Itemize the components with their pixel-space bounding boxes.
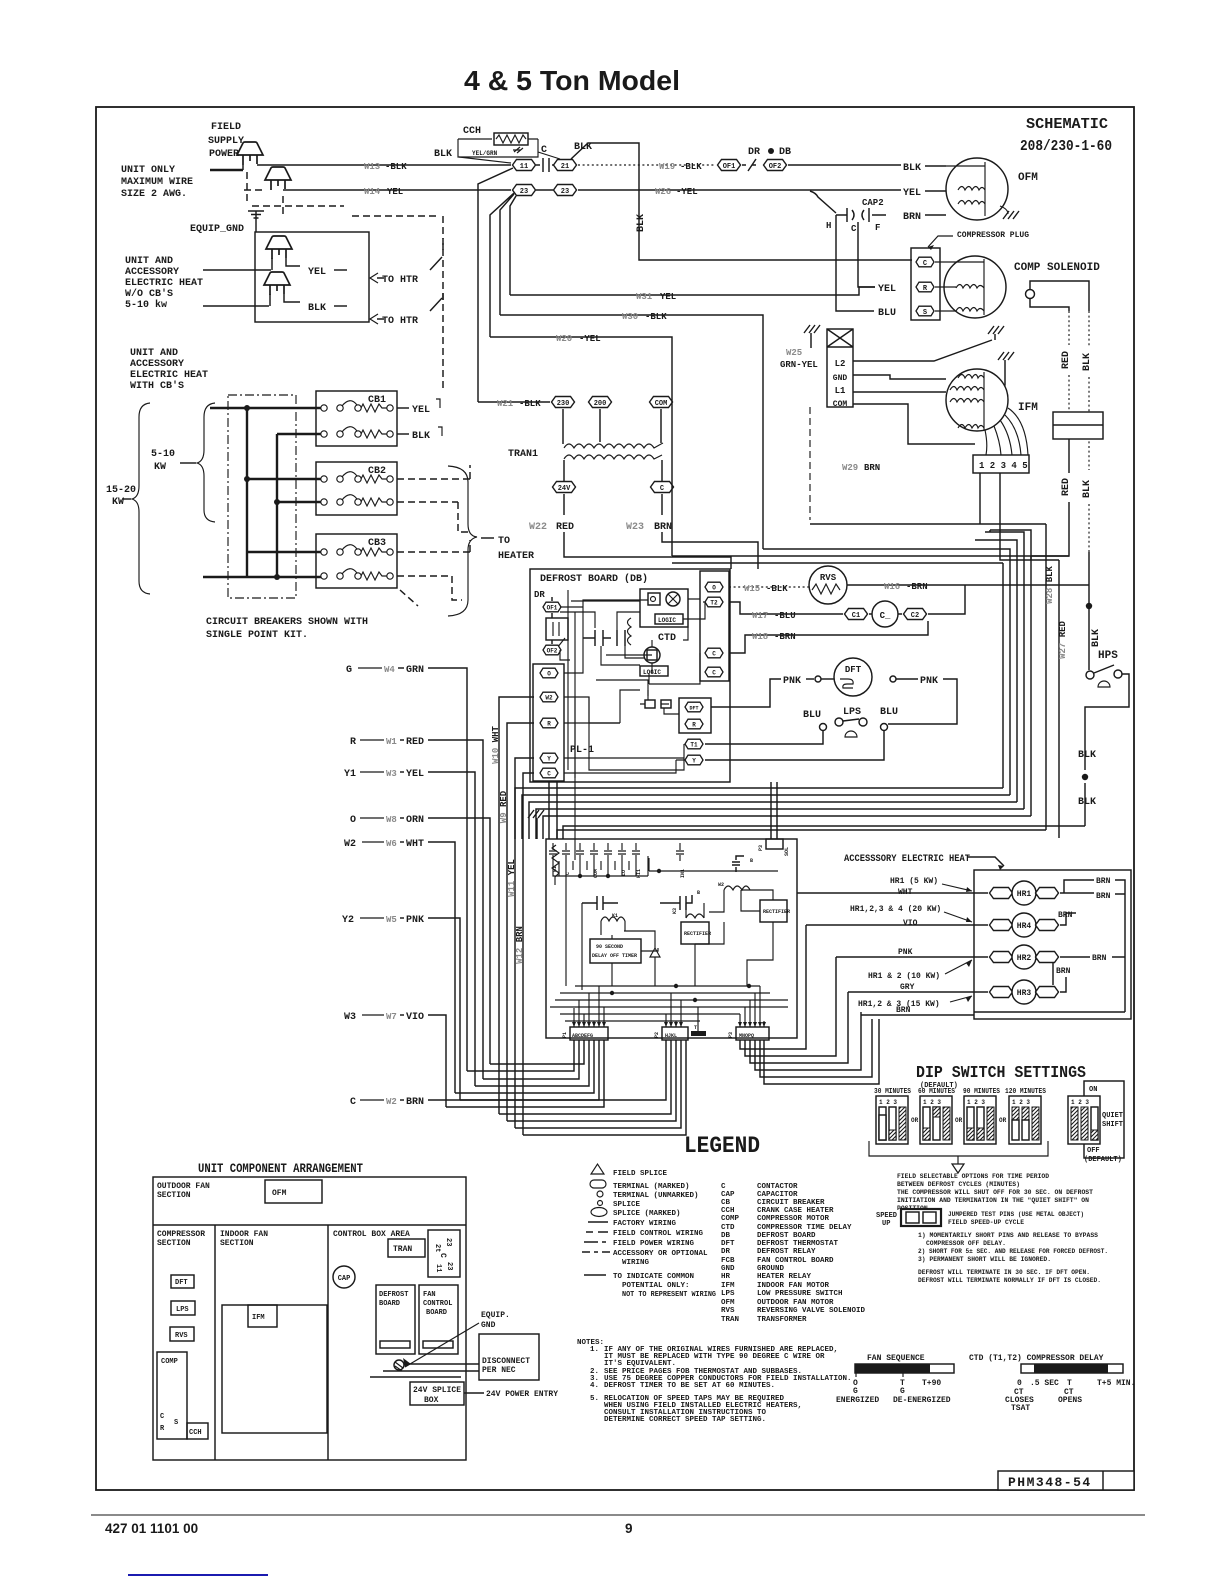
svg-text:OF1: OF1 <box>547 605 558 612</box>
svg-text:S: S <box>923 309 927 317</box>
svg-text:SPEED: SPEED <box>876 1212 897 1220</box>
svg-text:W15: W15 <box>744 584 760 594</box>
svg-text:LOW PRESSURE SWITCH: LOW PRESSURE SWITCH <box>757 1290 843 1298</box>
wire RED vertical <box>1068 311 1070 412</box>
svg-text:DB: DB <box>779 147 791 158</box>
svg-text:WITH CB'S: WITH CB'S <box>130 380 184 392</box>
svg-text:BLK: BLK <box>308 303 326 314</box>
junction dots on buses <box>244 405 250 411</box>
right fan loop 6 <box>764 1019 879 1084</box>
svg-text:RVS: RVS <box>721 1307 735 1315</box>
svg-text:C: C <box>712 670 716 677</box>
transformer TRAN1 coils <box>564 443 663 448</box>
wire BLK vertical <box>1088 311 1090 470</box>
svg-text:GND: GND <box>721 1265 735 1273</box>
svg-text:230: 230 <box>557 400 570 408</box>
svg-text:P2: P2 <box>654 1032 660 1038</box>
svg-text:C: C <box>712 651 716 658</box>
svg-text:TRAN: TRAN <box>721 1316 739 1324</box>
wire tap3 down <box>1000 473 1059 560</box>
circuit breaker CB2 <box>316 462 397 515</box>
terminal 24V <box>553 482 576 493</box>
svg-text:24V SPLICE: 24V SPLICE <box>413 1386 461 1395</box>
svg-text:BLK: BLK <box>903 163 921 174</box>
svg-text:IN1: IN1 <box>680 869 686 878</box>
timer box 90 second delay off <box>590 939 641 963</box>
svg-text:R: R <box>547 721 551 728</box>
loop O to P1 <box>490 1040 584 1064</box>
svg-text:DEFROST WILL TERMINATE IN 30 S: DEFROST WILL TERMINATE IN 30 SEC. IF DFT… <box>918 1269 1090 1276</box>
contactor contacts 11-21 <box>536 158 554 172</box>
svg-text:COM: COM <box>655 400 668 408</box>
loop W2 to P1 <box>455 1040 594 1093</box>
svg-text:YEL: YEL <box>412 405 430 416</box>
CCH plug outline <box>458 139 538 157</box>
svg-text:RED: RED <box>1061 478 1072 496</box>
svg-text:PNK: PNK <box>898 948 913 957</box>
quiet shift outer box <box>1084 1081 1124 1158</box>
speed-up test pins <box>901 1209 941 1226</box>
loop W3 to P1 <box>446 1040 604 1107</box>
svg-text:1 2 3: 1 2 3 <box>879 1099 897 1106</box>
svg-text:OFF: OFF <box>1087 1147 1100 1155</box>
disconnect box <box>479 1334 539 1380</box>
svg-text:23: 23 <box>561 188 569 196</box>
svg-text:23: 23 <box>445 1262 453 1270</box>
svg-text:VIO: VIO <box>406 1012 424 1023</box>
wire W12 BRN <box>523 773 534 1135</box>
svg-text:W31: W31 <box>636 292 653 302</box>
svg-text:1 2 3: 1 2 3 <box>967 1099 985 1106</box>
brace 5-10KW <box>197 403 215 522</box>
svg-text:COMPRESSOR OFF DELAY.: COMPRESSOR OFF DELAY. <box>926 1240 1006 1247</box>
svg-text:ABCDEFG: ABCDEFG <box>572 1033 593 1039</box>
DB pin C2 <box>705 667 723 677</box>
wire W22 RED to defrost board <box>564 494 731 569</box>
accessory dashed wires CB3 <box>397 552 470 576</box>
DFT right terminal <box>890 676 896 682</box>
svg-text:FAN: FAN <box>423 1291 436 1299</box>
svg-text:C: C <box>721 1183 726 1191</box>
logic module 2 <box>644 647 660 663</box>
svg-text:DFT: DFT <box>689 706 698 712</box>
svg-text:W14: W14 <box>364 187 381 197</box>
IFM speed tap wires <box>985 408 1028 455</box>
svg-text:5-10: 5-10 <box>151 449 175 460</box>
svg-text:G: G <box>346 665 352 676</box>
svg-text:BLK: BLK <box>1091 629 1102 647</box>
dip switch box 90 <box>964 1096 996 1144</box>
compressor plug block <box>911 248 940 320</box>
svg-text:SECTION: SECTION <box>157 1239 191 1248</box>
footer blue link line <box>128 1574 268 1576</box>
svg-text:120 MINUTES: 120 MINUTES <box>1005 1088 1046 1096</box>
svg-text:W2: W2 <box>386 1097 397 1107</box>
svg-text:HI1: HI1 <box>636 869 642 878</box>
wire BLK to bus <box>1084 783 1086 826</box>
svg-text:YEL/GRN: YEL/GRN <box>472 150 498 157</box>
loop G to P1 <box>467 1040 574 1071</box>
svg-text:P1: P1 <box>562 1032 568 1038</box>
relay block DFT/R <box>679 698 711 733</box>
svg-text:BOX: BOX <box>424 1396 439 1405</box>
connector P3 <box>736 1027 769 1040</box>
wire into heat box blk <box>203 305 269 307</box>
svg-text:P3: P3 <box>728 1032 734 1038</box>
wire W30-BLK long run <box>500 315 763 549</box>
24V splice box <box>410 1382 464 1405</box>
svg-text:COMPRESSOR MOTOR: COMPRESSOR MOTOR <box>757 1215 830 1223</box>
dip switch box 30 <box>876 1096 908 1144</box>
loop W12 wide <box>523 1040 686 1135</box>
svg-text:4.: 4. <box>590 1382 599 1390</box>
field splice S4 <box>264 272 290 295</box>
svg-text:K3: K3 <box>672 908 678 914</box>
equip ground symbol <box>248 211 264 218</box>
svg-text:W25: W25 <box>786 348 802 358</box>
svg-text:W4: W4 <box>384 665 395 675</box>
component T <box>691 1031 706 1036</box>
svg-text:TO HTR: TO HTR <box>382 316 418 327</box>
svg-text:BOARD: BOARD <box>426 1309 447 1317</box>
brace to heater <box>448 466 477 616</box>
ground at OFM <box>1000 206 1008 214</box>
svg-text:BLK: BLK <box>434 149 452 160</box>
svg-text:PL-1: PL-1 <box>570 745 594 756</box>
svg-text:COMPRESSOR: COMPRESSOR <box>157 1230 205 1239</box>
svg-text:11: 11 <box>520 163 528 171</box>
svg-text:2) SHORT FOR 5± SEC. AND RELEA: 2) SHORT FOR 5± SEC. AND RELEASE FOR FOR… <box>918 1248 1108 1255</box>
svg-text:NOT TO REPRESENT WIRING: NOT TO REPRESENT WIRING <box>622 1291 716 1299</box>
svg-text:BRN: BRN <box>864 463 880 473</box>
ground above heater control <box>528 810 544 818</box>
svg-text:WIRING: WIRING <box>622 1259 650 1267</box>
svg-text:PNK: PNK <box>406 915 424 926</box>
svg-text:BRN: BRN <box>903 212 921 223</box>
svg-text:CONTROL: CONTROL <box>423 1300 452 1308</box>
svg-text:BLU: BLU <box>880 707 898 718</box>
wire field supply lead <box>210 169 243 171</box>
svg-text:W20: W20 <box>556 334 572 344</box>
svg-text:CCH: CCH <box>463 126 481 137</box>
svg-text:OF2: OF2 <box>769 163 782 171</box>
svg-text:DFT: DFT <box>721 1240 735 1248</box>
svg-text:ACCESSORY: ACCESSORY <box>125 267 179 278</box>
DB pin O <box>705 582 723 592</box>
svg-text:C: C <box>438 1253 447 1258</box>
svg-text:CAP2: CAP2 <box>862 198 884 208</box>
svg-text:-BLK: -BLK <box>680 162 702 172</box>
indoor fan motor IFM <box>946 369 1008 431</box>
svg-text:PHM348-54: PHM348-54 <box>1008 1475 1092 1490</box>
svg-text:SPLICE (MARKED): SPLICE (MARKED) <box>613 1210 681 1218</box>
svg-text:F: F <box>875 223 880 233</box>
svg-text:C: C <box>541 145 547 156</box>
PL-1 pin W2 <box>540 692 558 702</box>
svg-text:YEL: YEL <box>406 769 424 780</box>
svg-text:W23: W23 <box>626 522 644 533</box>
svg-text:W18: W18 <box>752 632 768 642</box>
svg-text:SPLICE: SPLICE <box>613 1201 641 1209</box>
fan control board box <box>419 1285 458 1354</box>
dashed accessory risers <box>452 465 470 600</box>
unit & accessory heat w/o CB box <box>255 232 369 322</box>
small ground at CCH <box>513 147 523 153</box>
svg-text:C: C <box>160 1413 164 1421</box>
wire TO HTR 2 <box>377 298 442 319</box>
svg-text:FAN CONTROL BOARD: FAN CONTROL BOARD <box>757 1257 834 1265</box>
wire HPS out <box>1085 674 1129 770</box>
svg-text:BRN: BRN <box>1096 892 1111 901</box>
svg-text:O: O <box>350 815 356 826</box>
svg-text:DETERMINE CORRECT SPEED TAP SE: DETERMINE CORRECT SPEED TAP SETTING. <box>604 1416 766 1424</box>
svg-text:BLK: BLK <box>1078 797 1096 808</box>
wire 23a-23b <box>536 189 553 191</box>
svg-text:FIELD POWER WIRING: FIELD POWER WIRING <box>613 1240 695 1248</box>
arrangement outer box <box>153 1177 466 1460</box>
svg-text:1 2 3: 1 2 3 <box>1071 1099 1089 1106</box>
high pressure switch HPS <box>1086 665 1122 687</box>
svg-text:O: O <box>547 671 551 678</box>
svg-text:GRN: GRN <box>406 665 424 676</box>
svg-text:ACCESSSORY ELECTRIC HEAT: ACCESSSORY ELECTRIC HEAT <box>844 854 970 865</box>
svg-text:OFM: OFM <box>1018 172 1038 184</box>
svg-text:HR4: HR4 <box>1017 922 1032 931</box>
legend terminal marked <box>590 1180 606 1188</box>
relay contact OF1 <box>543 602 561 612</box>
svg-text:W3: W3 <box>344 1012 356 1023</box>
low pressure switch LPS <box>820 718 888 737</box>
splice triangle <box>650 948 660 957</box>
svg-text:RED: RED <box>406 737 424 748</box>
svg-text:R: R <box>692 722 696 729</box>
svg-text:9: 9 <box>625 1521 633 1536</box>
svg-text:1 2 3 4 5: 1 2 3 4 5 <box>979 461 1028 471</box>
wire W27 RED vertical <box>1058 560 1060 838</box>
wire VIO to HR4 <box>806 924 988 926</box>
svg-text:W11 YEL: W11 YEL <box>507 859 517 897</box>
svg-text:INDOOR FAN MOTOR: INDOOR FAN MOTOR <box>757 1282 830 1290</box>
wires DB bottom to FCB <box>549 781 557 839</box>
wire Y to LPS <box>705 730 884 760</box>
defrost relay coil box <box>546 618 568 640</box>
svg-text:ON: ON <box>1089 1086 1097 1094</box>
crank case heater CCH resistor <box>494 133 528 145</box>
svg-text:ELECTRIC HEAT: ELECTRIC HEAT <box>130 370 208 381</box>
FCB cap 1 <box>582 896 618 910</box>
svg-text:OUTDOOR FAN: OUTDOOR FAN <box>157 1182 210 1191</box>
svg-text:SECTION: SECTION <box>157 1191 191 1200</box>
svg-text:CCH: CCH <box>189 1429 202 1437</box>
svg-text:JUMPERED TEST PINS (USE METAL: JUMPERED TEST PINS (USE METAL OBJECT) <box>948 1211 1084 1218</box>
svg-text:IFM: IFM <box>721 1282 735 1290</box>
svg-text:CTD: CTD <box>658 633 676 644</box>
svg-text:GRN-YEL: GRN-YEL <box>780 360 818 370</box>
dip switch box 120 <box>1009 1096 1041 1144</box>
svg-text:O: O <box>712 585 716 592</box>
svg-text:FIELD CONTROL WIRING: FIELD CONTROL WIRING <box>613 1230 704 1238</box>
svg-text:W10 WHT: W10 WHT <box>491 725 501 763</box>
svg-text:PNK: PNK <box>920 676 938 687</box>
defrost relay contact OF1 <box>718 160 741 171</box>
connector P1 <box>570 1027 608 1040</box>
svg-text:DEFROST THERMOSTAT: DEFROST THERMOSTAT <box>757 1240 839 1248</box>
junction dot BLK HPS top <box>1086 603 1092 609</box>
svg-text:OF1: OF1 <box>723 163 736 171</box>
svg-text:IFM: IFM <box>252 1314 265 1322</box>
wire PNK to HR2 <box>836 956 988 958</box>
wire L1 to IFM <box>853 391 946 393</box>
svg-text:DR: DR <box>748 147 760 158</box>
arrangement divider v2 <box>327 1225 329 1460</box>
bus bar B <box>276 434 278 577</box>
wire feed CB3 row2 <box>203 576 324 578</box>
legend field power wiring <box>584 1241 606 1243</box>
ground at IFM <box>998 352 1014 360</box>
svg-text:BLU: BLU <box>803 710 821 721</box>
contactor coil terminal C1 <box>845 609 868 620</box>
wire feed CB2 row1 <box>247 478 324 480</box>
bus bar A <box>246 408 248 577</box>
svg-text:LPS: LPS <box>721 1290 735 1298</box>
svg-text:0: 0 <box>1017 1379 1022 1388</box>
contact slash DR <box>742 159 756 171</box>
compressor motor COMP <box>935 256 1006 318</box>
svg-text:YEL: YEL <box>903 188 921 199</box>
wire W16-BRN RVS to BLK bus <box>847 584 1089 586</box>
wire WHT to HR1 <box>797 892 988 894</box>
FCB long bus wire <box>649 858 778 871</box>
svg-text:UNIT AND: UNIT AND <box>125 256 173 267</box>
SOL terminal <box>766 839 783 849</box>
svg-text:T+90: T+90 <box>922 1379 941 1388</box>
wire BLK lower vertical to HPS <box>1088 504 1090 552</box>
svg-text:CTD: CTD <box>721 1224 735 1232</box>
svg-text:TERMINAL (MARKED): TERMINAL (MARKED) <box>613 1183 690 1191</box>
coil W2h <box>724 886 750 890</box>
svg-text:1 2 3: 1 2 3 <box>923 1099 941 1106</box>
svg-text:THE COMPRESSOR WILL SHUT OFF F: THE COMPRESSOR WILL SHUT OFF FOR 30 SEC.… <box>897 1189 1093 1196</box>
svg-text:OR: OR <box>999 1117 1007 1124</box>
wire feed CB1 row2 <box>277 433 324 435</box>
svg-text:W30: W30 <box>622 312 638 322</box>
svg-text:TRAN: TRAN <box>393 1245 412 1254</box>
svg-text:W17: W17 <box>752 611 768 621</box>
circuit breaker CB3 <box>316 534 397 588</box>
plug terminal C <box>916 257 934 267</box>
svg-text:CONTROL BOX AREA: CONTROL BOX AREA <box>333 1230 410 1239</box>
DB internal coil <box>628 618 632 645</box>
svg-text:FIELD SPEED-UP CYCLE: FIELD SPEED-UP CYCLE <box>948 1219 1024 1226</box>
rectifier 2 <box>760 900 787 922</box>
wire feed CB2 row2 <box>277 501 324 503</box>
svg-text:W7: W7 <box>386 1012 397 1022</box>
wire GRY to HR3 <box>848 991 988 993</box>
svg-text:S: S <box>174 1419 178 1427</box>
svg-text:DE-ENERGIZED: DE-ENERGIZED <box>893 1396 951 1405</box>
transformer primary leads <box>563 409 661 444</box>
DB right connector housing <box>700 571 729 681</box>
svg-text:W26: W26 <box>655 187 671 197</box>
PL-1 pin Y <box>540 753 558 763</box>
svg-text:LPS: LPS <box>176 1306 189 1314</box>
svg-text:OPENS: OPENS <box>1058 1396 1082 1405</box>
DB pin DFT <box>685 702 703 712</box>
svg-text:UNIT COMPONENT ARRANGEMENT: UNIT COMPONENT ARRANGEMENT <box>198 1161 363 1176</box>
CCH box <box>187 1423 208 1439</box>
dashed field boundary <box>252 206 443 392</box>
wire W18-BRN <box>729 621 928 653</box>
svg-text:T1: T1 <box>690 742 698 749</box>
terminal C sec <box>651 482 674 493</box>
svg-text:KW: KW <box>154 462 166 473</box>
svg-text:DEFROST: DEFROST <box>379 1291 408 1299</box>
svg-text:QUIET: QUIET <box>1102 1112 1123 1120</box>
disconnect feed lines <box>370 1364 479 1377</box>
defrost thermostat DFT <box>834 658 872 696</box>
cap 2 <box>660 895 692 910</box>
FCB internal top wiring <box>553 856 648 902</box>
svg-text:CAP: CAP <box>721 1191 735 1199</box>
legend common potential <box>584 1274 606 1276</box>
svg-text:FCB: FCB <box>721 1257 735 1265</box>
FCB bottom buses <box>550 986 788 1021</box>
contactor coil C <box>872 601 898 627</box>
right fan loop 3 <box>750 992 848 1063</box>
title block PHM348-54 <box>998 1471 1134 1490</box>
svg-text:DR: DR <box>721 1248 731 1256</box>
defrost relay contact OF2 <box>764 160 787 171</box>
svg-text:DR: DR <box>534 590 545 600</box>
svg-text:OFM: OFM <box>721 1299 735 1307</box>
svg-text:HR1,2,3 & 4 (20 KW): HR1,2,3 & 4 (20 KW) <box>850 905 941 914</box>
svg-text:C: C <box>350 1097 356 1108</box>
equip gnd leader <box>405 1323 479 1367</box>
DB internal wiring <box>560 599 705 860</box>
svg-text:WHT: WHT <box>406 839 424 850</box>
svg-text:BRN: BRN <box>1096 877 1111 886</box>
svg-text:OR: OR <box>911 1117 919 1124</box>
HR3 BRN jumper <box>1053 963 1066 992</box>
svg-text:GROUND: GROUND <box>757 1265 785 1273</box>
bus W29/W28 y524 <box>810 523 1046 525</box>
svg-text:-BLK: -BLK <box>385 162 407 172</box>
svg-text:VIO: VIO <box>903 919 918 928</box>
svg-text:FAN SEQUENCE: FAN SEQUENCE <box>867 1354 925 1363</box>
svg-text:RECTIFIER: RECTIFIER <box>763 909 790 915</box>
wire W20-YEL long run <box>490 337 672 556</box>
svg-text:3) PERMANENT SHORT WILL BE IGN: 3) PERMANENT SHORT WILL BE IGNORED. <box>918 1256 1051 1263</box>
svg-text:W2: W2 <box>718 882 724 888</box>
svg-text:HR: HR <box>721 1273 731 1281</box>
svg-text:YEL: YEL <box>387 187 403 197</box>
FCB extra terminal ticks <box>559 861 629 876</box>
svg-text:HEATER RELAY: HEATER RELAY <box>757 1273 812 1281</box>
coil K3 + rectifier <box>686 914 704 918</box>
svg-text:5.: 5. <box>590 1395 599 1403</box>
svg-text:MNOPQ: MNOPQ <box>739 1033 754 1039</box>
label TO HEATER <box>481 537 494 539</box>
dip switch box 60 <box>920 1096 952 1144</box>
svg-text:C2: C2 <box>911 612 919 620</box>
svg-text:W2: W2 <box>344 839 356 850</box>
svg-text:DEFROST RELAY: DEFROST RELAY <box>757 1248 816 1256</box>
wire W31-YEL long run <box>510 287 875 295</box>
label 24V POWER ENTRY <box>464 1392 484 1394</box>
svg-text:RVS: RVS <box>820 573 837 583</box>
svg-text:DIP SWITCH SETTINGS: DIP SWITCH SETTINGS <box>916 1064 1086 1083</box>
TRAN box <box>388 1239 425 1257</box>
